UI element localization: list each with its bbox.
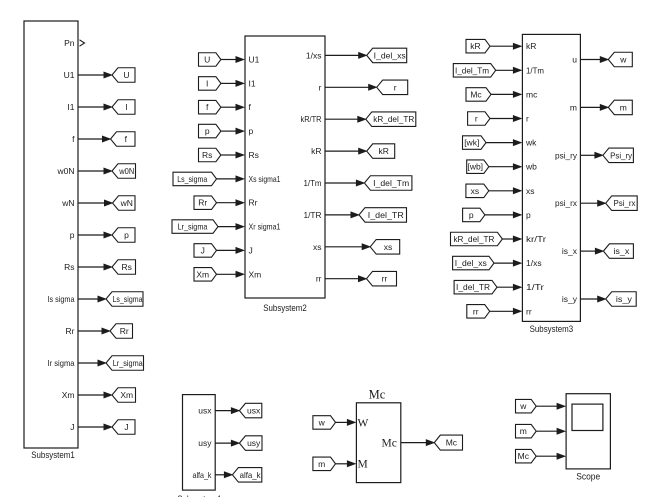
scope block Scope (566, 394, 610, 469)
svg-text:Mc: Mc (446, 438, 458, 448)
scope screen (572, 404, 603, 430)
goto tag kR (367, 144, 395, 159)
svg-text:1/xs: 1/xs (306, 50, 322, 60)
from tag I_del_Tm (453, 64, 495, 78)
from tag Ls_sigma (173, 172, 217, 186)
wire m to Scope (536, 430, 557, 432)
wire w to Scope (536, 405, 557, 407)
wire Subsystem4 to alfa_k (215, 474, 224, 476)
goto tag Mc (434, 435, 462, 450)
from tag Rs (199, 148, 221, 162)
wire Subsystem2 to rr (325, 278, 359, 280)
svg-text:usx: usx (198, 406, 212, 416)
svg-text:is_y: is_y (562, 294, 578, 304)
svg-text:is_y: is_y (616, 294, 633, 304)
wire Xm to Subsystem2 (217, 273, 237, 275)
svg-text:Rs: Rs (202, 150, 212, 160)
block Mc (356, 403, 400, 483)
wire Subsystem1 to U (78, 74, 104, 76)
svg-text:alfa_k: alfa_k (193, 470, 213, 480)
svg-text:Rr: Rr (66, 326, 75, 336)
svg-text:xs: xs (313, 242, 322, 252)
goto tag usx (239, 403, 261, 418)
svg-text:rr: rr (473, 306, 479, 316)
wire kR_del_TR to Subsystem3 (502, 238, 513, 240)
svg-text:u: u (572, 55, 577, 65)
wire Rr to Subsystem2 (217, 202, 237, 204)
wire Subsystem1 to wN (78, 202, 105, 204)
subsystem Subsystem4 (183, 395, 216, 491)
svg-text:U1: U1 (249, 55, 260, 65)
wire I to Subsystem2 (221, 82, 236, 84)
wire Subsystem3 to is_y (580, 298, 597, 300)
wire r to Subsystem3 (490, 118, 513, 120)
goto tag I_del_xs (367, 48, 407, 63)
subsystem Subsystem1 (24, 21, 78, 448)
wire Subsystem1 to Ls_sigma (78, 298, 98, 300)
wire J to Subsystem2 (217, 249, 237, 251)
svg-text:Xm: Xm (62, 390, 75, 400)
svg-text:U1: U1 (64, 70, 75, 80)
goto tag rr (367, 271, 397, 286)
svg-text:Rr: Rr (249, 198, 258, 208)
svg-text:Pn: Pn (64, 38, 75, 48)
wire Subsystem1 to Lr_sigma (78, 362, 98, 364)
svg-text:Subsystem2: Subsystem2 (263, 303, 307, 314)
wire Subsystem2 to I_del_TR (325, 214, 351, 216)
wire Subsystem1 to w0N (78, 170, 104, 172)
svg-text:usx: usx (247, 406, 261, 416)
from tag m (Scope input) (516, 424, 537, 438)
wire Subsystem2 to kR_del_TR (325, 118, 358, 120)
svg-text:Subsystem1: Subsystem1 (31, 450, 75, 461)
svg-text:wk: wk (525, 138, 537, 148)
svg-text:wN: wN (120, 198, 133, 208)
from tag rr (467, 305, 490, 319)
svg-text:Rr: Rr (198, 198, 207, 208)
svg-text:Xr sigma1: Xr sigma1 (249, 222, 281, 232)
wire Subsystem3 to m (580, 106, 600, 108)
svg-text:I_del_TR: I_del_TR (368, 210, 404, 220)
svg-text:alfa_k: alfa_k (240, 470, 262, 480)
svg-text:kR: kR (311, 146, 321, 156)
svg-text:M: M (358, 458, 368, 470)
svg-text:r: r (475, 114, 478, 124)
svg-text:rr: rr (316, 274, 322, 284)
goto tag m (608, 100, 632, 115)
from tag w (Scope input) (516, 399, 537, 413)
svg-text:Rs: Rs (249, 150, 259, 160)
goto tag usy (239, 436, 262, 451)
svg-text:wN: wN (61, 198, 74, 208)
svg-text:is_x: is_x (613, 246, 630, 256)
wire I_del_xs to Subsystem3 (494, 262, 513, 264)
svg-text:kR_del_TR: kR_del_TR (373, 114, 414, 124)
wire w to Mc block (336, 421, 348, 423)
svg-text:psi_rx: psi_rx (555, 198, 578, 208)
svg-text:1/TR: 1/TR (304, 210, 322, 220)
from tag Mc (Scope input) (516, 449, 537, 463)
svg-text:m: m (620, 102, 627, 112)
wire Subsystem1 to p (78, 234, 104, 236)
wire [wk] to Subsystem3 (486, 142, 513, 144)
svg-text:[wk]: [wk] (464, 138, 479, 148)
from tag p (463, 208, 485, 222)
svg-text:rr: rr (526, 306, 532, 316)
svg-text:p: p (469, 210, 474, 220)
svg-text:Rs: Rs (122, 262, 132, 272)
svg-text:I_del_Tm: I_del_Tm (455, 65, 489, 75)
svg-text:Xm: Xm (249, 269, 262, 279)
svg-text:p: p (249, 126, 254, 136)
svg-text:w: w (318, 417, 326, 427)
wire U to Subsystem2 (221, 59, 236, 61)
svg-text:w: w (519, 401, 527, 411)
goto tag kR_del_TR (366, 112, 416, 127)
from tag kR (466, 39, 490, 53)
svg-text:I_del_Tm: I_del_Tm (373, 178, 409, 188)
svg-text:p: p (205, 126, 210, 136)
svg-text:J: J (201, 245, 205, 255)
svg-text:Mc: Mc (382, 438, 397, 450)
svg-text:I_del_xs: I_del_xs (455, 258, 487, 268)
svg-text:usy: usy (247, 438, 261, 448)
wire Subsystem3 to w (580, 59, 600, 61)
from tag I (199, 77, 221, 91)
from tag J (194, 244, 217, 258)
goto tag f (111, 132, 136, 147)
wire Subsystem1 to Xm (78, 394, 104, 396)
svg-text:r: r (319, 82, 322, 92)
goto tag Xm (112, 388, 136, 403)
wire Subsystem3 to Psi_ry (580, 154, 595, 156)
svg-text:Is sigma: Is sigma (48, 294, 75, 304)
goto tag is_x (603, 244, 633, 259)
wire [wb] to Subsystem3 (489, 166, 514, 168)
svg-text:w: w (619, 55, 627, 65)
svg-text:kr/Tr: kr/Tr (526, 234, 546, 244)
wire Subsystem1 to Rr (78, 330, 102, 332)
from tag p (199, 124, 221, 138)
svg-text:Xm: Xm (120, 390, 133, 400)
from tag r (468, 112, 490, 126)
svg-text:I: I (125, 102, 127, 112)
svg-text:1/Tm: 1/Tm (526, 65, 544, 75)
svg-text:r: r (394, 82, 397, 92)
wire I_del_TR to Subsystem3 (497, 286, 513, 288)
wire Rs to Subsystem2 (221, 154, 236, 156)
goto tag Psi_ry (603, 148, 634, 163)
goto tag U (112, 68, 135, 83)
goto tag J (112, 420, 135, 435)
wire kR to Subsystem3 (490, 45, 513, 47)
wire Subsystem4 to usy (215, 442, 231, 444)
svg-text:1/xs: 1/xs (526, 258, 542, 268)
svg-text:Psi_rx: Psi_rx (613, 198, 636, 208)
svg-text:kR: kR (379, 146, 389, 156)
wire Subsystem3 to Psi_rx (580, 202, 597, 204)
svg-text:m: m (520, 426, 527, 436)
goto tag alfa_k (232, 468, 261, 483)
svg-text:Xs sigma1: Xs sigma1 (249, 174, 281, 184)
goto tag Ls_sigma (106, 292, 143, 307)
svg-text:J: J (70, 422, 74, 432)
wire Subsystem2 to r (325, 86, 369, 88)
goto tag Lr_sigma (106, 356, 144, 371)
svg-text:Subsystem3: Subsystem3 (530, 324, 574, 335)
svg-text:Lr_sigma: Lr_sigma (178, 222, 208, 232)
svg-text:W: W (358, 417, 369, 429)
svg-text:kR/TR: kR/TR (301, 114, 322, 124)
svg-text:Rr: Rr (120, 326, 129, 336)
svg-text:U: U (123, 70, 129, 80)
wire m to Mc block (336, 463, 348, 465)
wire Mc to Scope (536, 455, 557, 457)
svg-text:J: J (249, 245, 253, 255)
svg-text:p: p (526, 210, 531, 220)
from tag m (Mc input) (313, 457, 336, 471)
svg-text:r: r (526, 114, 529, 124)
goto tag I_del_Tm (364, 176, 412, 191)
wire Mc block to Mc tag (401, 442, 427, 444)
svg-text:Ir sigma: Ir sigma (48, 358, 75, 368)
goto tag r (377, 80, 408, 95)
wire Lr_sigma to Subsystem2 (218, 226, 236, 228)
svg-text:is_x: is_x (562, 246, 578, 256)
goto tag I_del_TR (359, 208, 407, 223)
goto tag Psi_rx (606, 196, 638, 211)
wire Subsystem4 to usx (215, 410, 231, 412)
wire Subsystem2 to kR (325, 150, 359, 152)
wire Subsystem1 to J (78, 426, 104, 428)
subsystem Subsystem3 (522, 34, 580, 321)
svg-text:Mc: Mc (518, 451, 530, 461)
wire rr to Subsystem3 (490, 310, 514, 312)
wire Mc to Subsystem3 (491, 93, 513, 95)
svg-text:psi_ry: psi_ry (555, 150, 578, 160)
svg-text:xs: xs (526, 186, 535, 196)
wire I_del_Tm to Subsystem3 (496, 69, 514, 71)
svg-text:J: J (124, 422, 128, 432)
from tag [wk] (463, 136, 487, 150)
from tag I_del_TR (454, 280, 497, 294)
from tag f (199, 100, 221, 114)
wire Subsystem1 to Rs (78, 266, 104, 268)
svg-text:usy: usy (198, 438, 212, 448)
from tag w (Mc input) (313, 416, 336, 430)
from tag I_del_xs (453, 256, 494, 270)
wire p to Subsystem3 (485, 214, 514, 216)
goto tag Rr (110, 324, 133, 339)
svg-text:Mc: Mc (369, 387, 386, 401)
svg-text:Scope: Scope (576, 472, 600, 483)
svg-text:xs: xs (471, 186, 480, 196)
svg-text:I_del_xs: I_del_xs (374, 50, 406, 60)
output port marker Pn (unconnected) (80, 40, 85, 46)
svg-text:Ls_sigma: Ls_sigma (113, 294, 143, 304)
wire Subsystem2 to I_del_Tm (325, 182, 356, 184)
from tag xs (466, 184, 489, 198)
goto tag p (112, 228, 135, 243)
svg-text:wb: wb (525, 162, 537, 172)
svg-text:I1: I1 (67, 102, 74, 112)
goto tag wN (113, 196, 136, 211)
svg-text:rr: rr (382, 274, 388, 284)
svg-text:mc: mc (526, 89, 538, 99)
from tag Mc (466, 88, 491, 102)
svg-text:m: m (570, 102, 577, 112)
svg-text:I: I (206, 78, 208, 88)
svg-text:1/Tm: 1/Tm (304, 178, 322, 188)
goto tag Rs (112, 260, 136, 275)
wire Subsystem3 to is_x (580, 250, 595, 252)
svg-text:Mc: Mc (470, 89, 482, 99)
wire Subsystem1 to I (78, 106, 104, 108)
from tag Xm (194, 268, 217, 282)
from tag U (199, 53, 221, 67)
svg-text:m: m (318, 459, 325, 469)
wire Ls_sigma to Subsystem2 (217, 178, 237, 180)
from tag Rr (194, 196, 217, 210)
subsystem Subsystem2 (245, 36, 325, 298)
svg-text:p: p (124, 230, 129, 240)
goto tag xs (370, 240, 400, 255)
from tag Lr_sigma (172, 220, 218, 234)
goto tag I (112, 100, 135, 115)
from tag kR_del_TR (451, 232, 503, 246)
goto tag w (608, 52, 632, 67)
from tag [wb] (467, 160, 489, 174)
wire Subsystem2 to xs (325, 246, 362, 248)
svg-text:Rs: Rs (64, 262, 74, 272)
svg-text:Psi_ry: Psi_ry (610, 150, 633, 160)
wire Subsystem2 to I_del_xs (325, 54, 359, 56)
svg-text:kR: kR (470, 41, 480, 51)
svg-text:kR: kR (526, 41, 536, 51)
svg-text:w0N: w0N (118, 166, 134, 176)
svg-text:[wb]: [wb] (467, 162, 483, 172)
svg-text:I1: I1 (249, 78, 256, 88)
goto tag is_y (606, 292, 637, 307)
svg-text:1/Tr: 1/Tr (526, 282, 544, 292)
svg-text:U: U (204, 55, 210, 65)
svg-text:Xm: Xm (196, 269, 209, 279)
wire f to Subsystem2 (221, 106, 236, 108)
goto tag w0N (112, 164, 136, 179)
wire Subsystem1 to f (78, 138, 103, 140)
wire xs to Subsystem3 (489, 190, 514, 192)
svg-text:xs: xs (384, 242, 393, 252)
svg-text:kR_del_TR: kR_del_TR (453, 234, 494, 244)
svg-text:I_del_TR: I_del_TR (456, 282, 490, 292)
svg-text:p: p (70, 230, 75, 240)
svg-text:w0N: w0N (56, 166, 74, 176)
wire p to Subsystem2 (221, 130, 236, 132)
svg-text:Ls_sigma: Ls_sigma (177, 174, 207, 184)
svg-text:Lr_sigma: Lr_sigma (113, 358, 143, 368)
